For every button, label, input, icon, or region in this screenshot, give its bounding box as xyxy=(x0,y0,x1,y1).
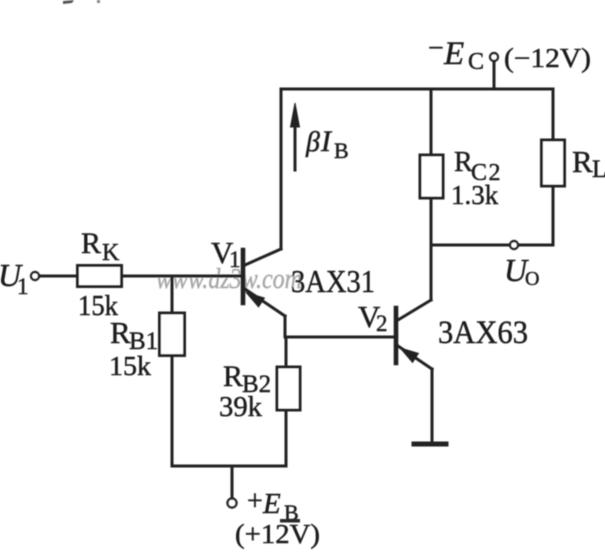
svg-text:C: C xyxy=(468,49,484,75)
svg-text:B: B xyxy=(334,138,349,163)
label V1 xyxy=(211,235,241,272)
wire V2 emitter slant xyxy=(398,346,432,369)
label -EC xyxy=(428,33,484,75)
ground xyxy=(414,442,446,447)
label RB1 xyxy=(110,315,158,355)
label RL xyxy=(572,144,605,183)
wire bottom rail xyxy=(172,465,286,468)
wire output rail xyxy=(431,244,553,247)
resistor RC2 xyxy=(420,155,443,198)
svg-text:E: E xyxy=(443,36,464,72)
svg-text:1: 1 xyxy=(229,247,241,272)
wire top rail xyxy=(281,88,553,91)
svg-text:(+12V): (+12V) xyxy=(235,519,320,549)
svg-text:R: R xyxy=(572,144,593,179)
arrow beta-IB current xyxy=(294,116,297,170)
label 39k RB2 value xyxy=(219,392,262,423)
svg-text:−: − xyxy=(428,33,444,64)
wire V2 emitter vertical xyxy=(431,369,434,442)
svg-text:2: 2 xyxy=(376,311,388,336)
wire V1 emitter slant xyxy=(245,289,285,316)
svg-text:+: + xyxy=(247,486,263,517)
wire +EB stub xyxy=(231,466,234,499)
svg-text:39k: 39k xyxy=(219,392,262,423)
label RB2 xyxy=(223,360,271,398)
svg-text:R: R xyxy=(81,227,101,260)
wire RB2 upper xyxy=(285,337,288,367)
resistor RK xyxy=(78,266,122,287)
label (-12V) xyxy=(504,43,591,73)
label V2 xyxy=(358,299,388,336)
wire -EC supply stub xyxy=(493,61,496,89)
arrow V1 emitter PNP xyxy=(247,293,264,307)
wire RB2 lower xyxy=(285,410,288,466)
svg-text:O: O xyxy=(525,268,539,290)
svg-text:3AX31: 3AX31 xyxy=(291,263,375,299)
label 15k RK value xyxy=(78,291,118,322)
label 1.3k value xyxy=(451,180,499,210)
wire RB1 upper xyxy=(171,276,174,313)
arrow V2 emitter PNP xyxy=(401,349,418,363)
transistor V2 base bar xyxy=(394,308,399,363)
wire RL lower xyxy=(552,186,555,245)
terminal UO xyxy=(510,241,518,249)
wire V1 collector slant xyxy=(245,249,281,265)
svg-text:1.3k: 1.3k xyxy=(451,180,499,210)
svg-text:R: R xyxy=(110,315,131,350)
svg-text:E: E xyxy=(262,488,281,520)
transistor V1 base bar xyxy=(241,250,246,303)
stray scan mark top xyxy=(63,0,74,4)
terminal -EC xyxy=(490,53,498,61)
wire RC2 branch upper xyxy=(430,89,433,155)
wire V1 collector riser xyxy=(280,89,283,249)
label +EB xyxy=(247,486,299,525)
wire RB1 lower xyxy=(171,356,174,467)
wire V1 emitter vertical xyxy=(284,316,287,337)
label 3AX31 xyxy=(291,263,375,299)
resistor RB1 xyxy=(160,313,185,356)
label 3AX63 xyxy=(438,315,528,351)
label UO xyxy=(504,252,539,290)
wire V2 collector vertical xyxy=(430,245,433,300)
label U1 input xyxy=(0,257,29,299)
svg-text:(−12V): (−12V) xyxy=(504,43,591,73)
scan artifact bar above 12V xyxy=(280,519,300,523)
svg-text:L: L xyxy=(592,156,605,183)
label beta-IB xyxy=(305,125,349,163)
wire RL riser xyxy=(552,89,555,140)
terminal U1 input xyxy=(31,272,39,280)
watermark xyxy=(156,264,302,295)
wire input stub xyxy=(40,275,78,278)
resistor RB2 xyxy=(277,367,300,410)
svg-text:1: 1 xyxy=(17,274,29,299)
svg-text:R: R xyxy=(223,360,243,393)
wire RC2 branch lower xyxy=(430,198,433,245)
svg-text:I: I xyxy=(320,125,333,158)
wire base feed xyxy=(122,275,243,278)
svg-text:3AX63: 3AX63 xyxy=(438,315,528,351)
svg-text:K: K xyxy=(102,240,120,266)
svg-text:15k: 15k xyxy=(109,351,152,381)
label RK xyxy=(81,227,120,266)
label (+12V) xyxy=(235,519,320,549)
resistor RL xyxy=(542,140,565,186)
svg-text:β: β xyxy=(305,127,320,158)
label RC2 xyxy=(454,147,502,186)
wire V2 collector slant xyxy=(398,300,431,320)
wire V2 base rail xyxy=(285,336,394,339)
terminal +EB xyxy=(228,499,237,508)
label 15k RB1 value xyxy=(109,351,152,381)
